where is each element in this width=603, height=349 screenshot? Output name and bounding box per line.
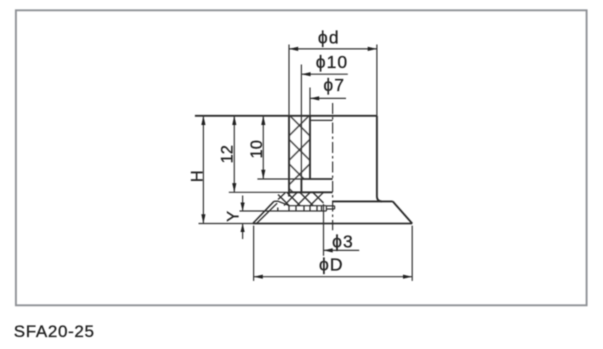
pad lip inner slant [257, 203, 278, 223]
dimension phi D [253, 226, 255, 281]
pad bottom face [253, 223, 412, 225]
vent hole phi3 wall / extension [323, 204, 325, 256]
chamber phi10 left wall [300, 179, 302, 192]
svg-text:SFA20-25: SFA20-25 [14, 322, 95, 341]
svg-text:Y: Y [225, 211, 243, 222]
fitting left wall [288, 116, 290, 197]
dimension 12 [233, 116, 235, 193]
pad lip outer slant [253, 201, 274, 223]
svg-text:H: H [188, 170, 206, 182]
svg-text:12: 12 [218, 145, 236, 163]
rib row top line [288, 205, 326, 207]
svg-text:10: 10 [248, 140, 266, 158]
svg-text:ϕ3: ϕ3 [332, 232, 354, 252]
dimension phi7 [309, 88, 311, 116]
dimension phi-d [289, 45, 377, 116]
fitting bottom face [289, 191, 333, 193]
section hatch fitting wall [289, 116, 310, 193]
section hatch rubber neck [278, 193, 324, 206]
bore phi7 bottom [301, 178, 332, 180]
svg-text:ϕ7: ϕ7 [323, 75, 345, 95]
fitting top face [195, 115, 377, 117]
pad shoulder line [333, 200, 393, 202]
extension line 12 level [229, 191, 289, 193]
extension line 10 level [257, 178, 301, 180]
dimension phi10 [300, 65, 302, 180]
centerline [332, 103, 334, 230]
dimension phi3 [324, 249, 360, 251]
pad cone right [393, 201, 413, 223]
pad bottom extension left [199, 223, 253, 225]
pad ridge [274, 201, 290, 206]
rib ticks [278, 206, 322, 211]
svg-text:ϕ10: ϕ10 [316, 52, 349, 72]
dimension H [202, 116, 204, 224]
rib row bottom line [240, 210, 327, 212]
center plug [326, 206, 334, 211]
bore entry edge [310, 119, 333, 121]
svg-text:ϕd: ϕd [318, 28, 340, 48]
bore phi7 left wall [309, 116, 311, 179]
dimension 10 [262, 116, 264, 179]
svg-text:ϕD: ϕD [319, 254, 344, 274]
fitting right wall with fillet [377, 116, 382, 202]
dimension Y [242, 196, 244, 212]
